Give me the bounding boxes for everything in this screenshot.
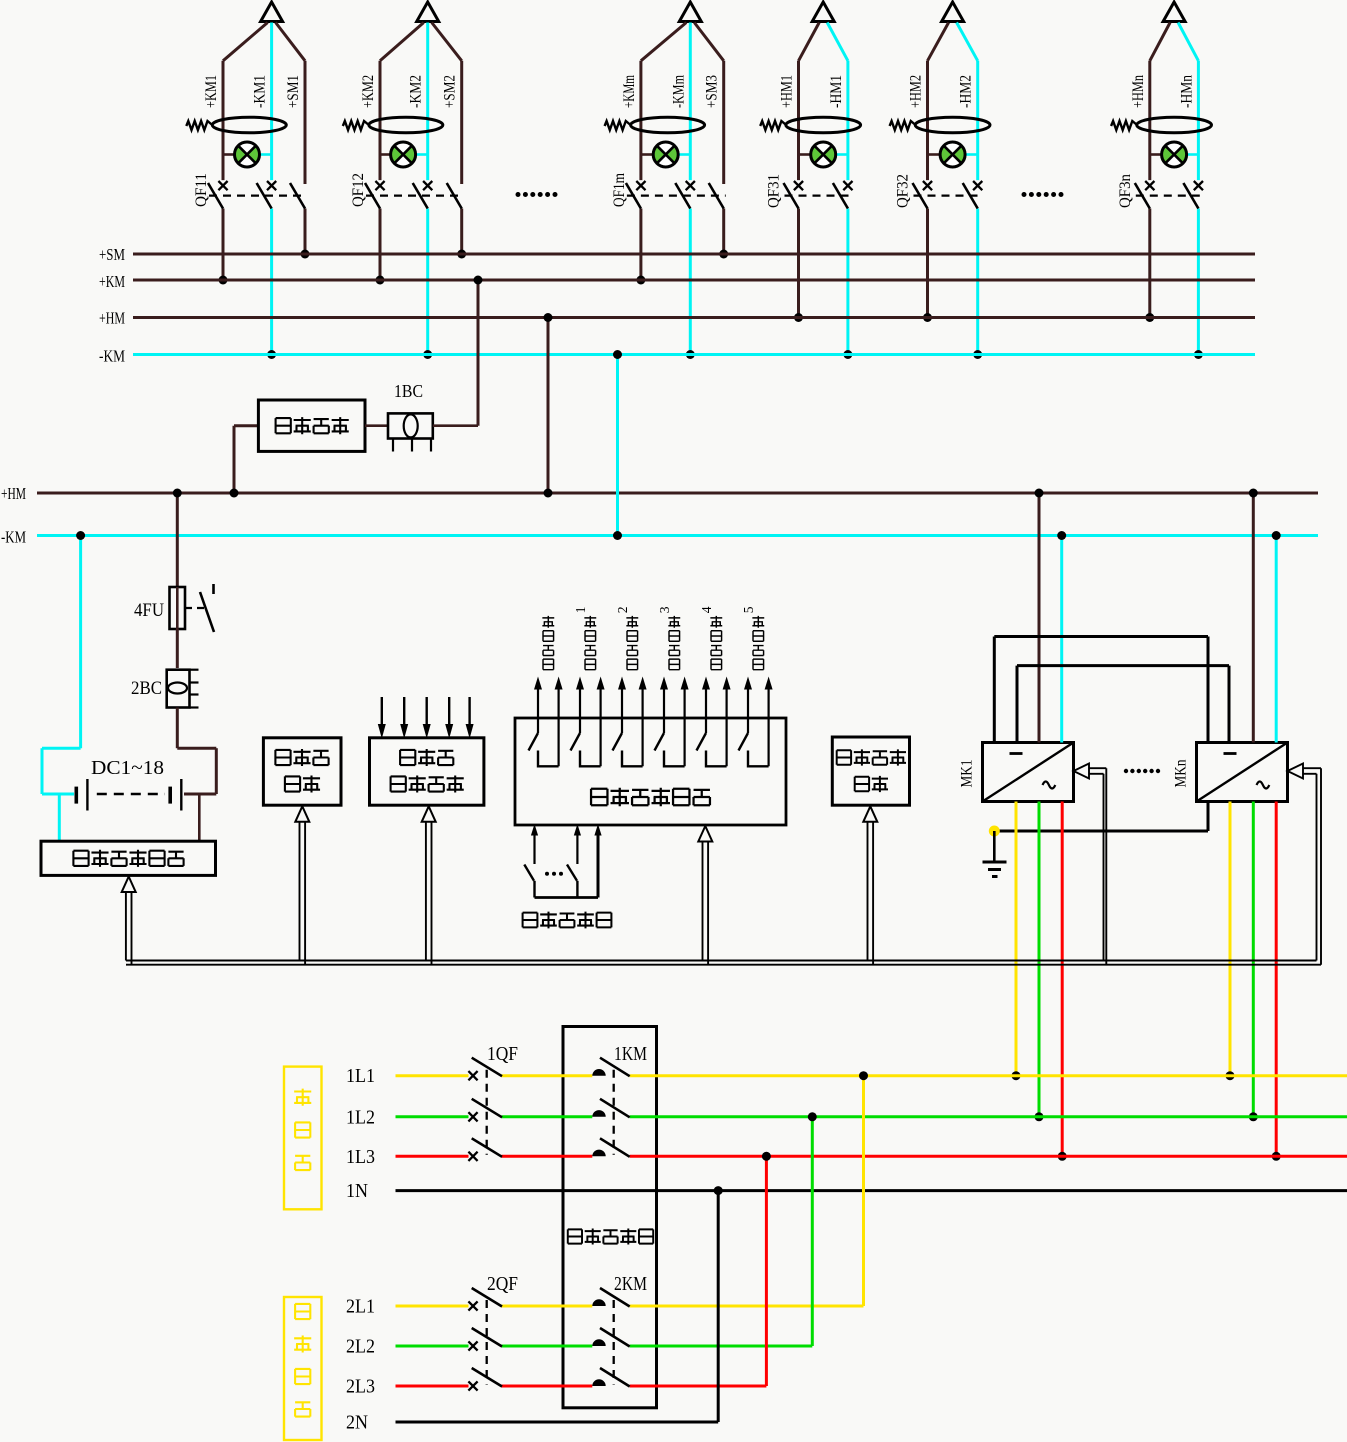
svg-text:1KM: 1KM: [614, 1043, 647, 1065]
svg-text:-KMm: -KMm: [670, 75, 687, 108]
line 2L1: [346, 1296, 864, 1318]
ellipsis dots between QF32 and QF3n: [1022, 192, 1064, 197]
ellipsis dots between MK1 and MKn: [1124, 769, 1160, 773]
wire +line left +KMm: [641, 23, 686, 281]
label switch input: [523, 912, 612, 929]
comm bus horizontal: [126, 961, 1321, 965]
contactor 1KM: [592, 1043, 647, 1157]
label 故障输出3: [657, 606, 680, 669]
wire MK1 phase C: [1058, 802, 1067, 1161]
distribution feeder head triangle QF12: [417, 2, 439, 22]
wire module DC link inner: [1017, 666, 1229, 743]
bus -KM control: [1, 528, 1318, 547]
node -HM2 on -KM bus: [973, 350, 982, 359]
svg-text:2L2: 2L2: [346, 1336, 375, 1358]
node +SM1 on +SM bus: [301, 250, 310, 259]
wire 4FU to 2BC: [176, 629, 179, 668]
svg-text:+KMm: +KMm: [621, 75, 638, 108]
node +SM2 on +SM bus: [457, 250, 466, 259]
wire -line riser -KM2: [426, 23, 429, 355]
comm arrow into battery inspection unit: [122, 877, 136, 965]
node -HMn on -KM bus: [1194, 350, 1203, 359]
distribution feeder head triangle QF31: [812, 2, 834, 22]
node +KM1 on +KM bus: [219, 276, 228, 285]
circuit breaker QF1m: [611, 173, 726, 209]
circuit breaker QF12: [350, 173, 464, 209]
label 故障输出2: [615, 606, 638, 669]
svg-text:+KM2: +KM2: [360, 75, 377, 108]
bus -KM: [99, 347, 1255, 366]
distribution feeder head triangle QF11: [261, 2, 283, 22]
label +SM1: [285, 75, 302, 108]
wire MKn -KM feed: [1272, 531, 1281, 743]
AC DC detection unit box: [370, 738, 484, 805]
battery inspection unit box: [41, 841, 216, 875]
bus +SM: [99, 245, 1255, 264]
svg-text:-HM1: -HM1: [828, 75, 845, 108]
label -KMm: [670, 75, 687, 108]
svg-text:1: 1: [573, 606, 588, 613]
line 1N: [346, 1180, 1347, 1202]
wire battery plus tap to monitor: [198, 794, 201, 841]
main monitor unit box: [263, 738, 341, 805]
svg-text:4FU: 4FU: [134, 600, 164, 621]
distribution feeder head triangle QF32: [942, 2, 964, 22]
wire 4FU riser: [173, 489, 182, 588]
label +KMm: [621, 75, 638, 108]
signal lamp QF12: [380, 142, 428, 167]
label 系统故障: [542, 616, 554, 670]
circuit breaker QF31: [766, 174, 853, 209]
relay output contact 4: [655, 677, 689, 767]
comm arrow into MK1: [1074, 764, 1107, 965]
svg-text:1N: 1N: [346, 1180, 368, 1202]
wire MK1 phase A: [1012, 802, 1021, 1081]
ground symbol: [983, 831, 1007, 877]
svg-text:+HM: +HM: [99, 309, 125, 328]
current transformer ellipse QF1m: [605, 117, 705, 133]
wire MKn phase B: [1249, 802, 1258, 1122]
relay output contact 5: [697, 677, 731, 767]
svg-text:-KM: -KM: [99, 347, 125, 366]
wire MK1 -KM feed: [1057, 531, 1066, 743]
wire module PE loop outer: [994, 637, 1208, 832]
wire +line left +KM1: [223, 23, 268, 281]
wire 2L2 to 1L2: [808, 1112, 817, 1346]
relay output contact 2: [571, 677, 605, 767]
svg-text:4: 4: [699, 606, 714, 613]
svg-text:-KM1: -KM1: [252, 75, 269, 108]
wire MK1 +HM feed: [1035, 489, 1044, 743]
svg-text:2L3: 2L3: [346, 1376, 375, 1398]
ellipsis dots between QF12 and QF1m: [516, 192, 558, 197]
wire +HM left +HMn: [1150, 23, 1170, 318]
label 故障输出1: [573, 606, 596, 669]
svg-text:+HM2: +HM2: [908, 75, 925, 108]
label -KM2: [408, 75, 425, 108]
svg-text:+HMn: +HMn: [1130, 75, 1147, 108]
node -HM1 on -KM bus: [843, 350, 852, 359]
wire +SM right +SM2: [432, 23, 462, 255]
distribution feeder head triangle QF3n: [1163, 2, 1185, 22]
line 2L3: [346, 1376, 766, 1398]
svg-text:1L3: 1L3: [346, 1146, 375, 1168]
node +HM1 on +HM bus: [794, 313, 803, 322]
wire -KM to battery negative: [42, 531, 85, 794]
svg-text:MKn: MKn: [1173, 760, 1190, 788]
wire 2L1 to 1L1: [859, 1071, 868, 1306]
svg-text:+HM: +HM: [1, 484, 26, 503]
breaker 1QF: [468, 1043, 518, 1161]
svg-text:+SM: +SM: [99, 245, 125, 264]
label -HM1: [828, 75, 845, 108]
comm arrow into insulation monitor: [863, 806, 877, 964]
converter 2BC: [131, 670, 199, 708]
node +HM2 on +HM bus: [923, 313, 932, 322]
svg-text:QF12: QF12: [350, 173, 367, 207]
label -KM1: [252, 75, 269, 108]
disconnect switch at 4FU: [185, 584, 214, 632]
wire +HM left +HM2: [928, 23, 949, 318]
wire -HM right -HMn: [1178, 23, 1198, 355]
wire 1BC to riser: [433, 424, 478, 427]
circuit breaker QF11: [193, 173, 307, 209]
label +KM1: [203, 75, 220, 108]
svg-text:5: 5: [741, 606, 756, 613]
wire 2BC to battery positive: [177, 708, 216, 795]
label -HMn: [1178, 75, 1195, 108]
node +KM2 on +KM bus: [376, 276, 385, 285]
line 1L2: [346, 1106, 1347, 1128]
wire battery minus tap to monitor: [58, 794, 61, 841]
node +HMn on +HM bus: [1145, 313, 1154, 322]
svg-text:2BC: 2BC: [131, 678, 162, 699]
current transformer ellipse QF32: [890, 117, 990, 133]
svg-text:-KM: -KM: [1, 528, 26, 547]
svg-text:2QF: 2QF: [487, 1273, 518, 1295]
node +KMm on +KM bus: [636, 276, 645, 285]
svg-text:QF3n: QF3n: [1117, 174, 1134, 208]
comm arrow into MKn: [1288, 764, 1322, 965]
battery DC1~18: [76, 757, 181, 811]
rectifier module MK1: [959, 743, 1074, 802]
svg-text:2N: 2N: [346, 1412, 368, 1434]
svg-text:+SM1: +SM1: [285, 75, 302, 108]
svg-text:3: 3: [657, 606, 672, 613]
breaker 2QF: [468, 1273, 518, 1391]
line 1L3: [346, 1146, 1347, 1168]
label +SM2: [442, 75, 459, 108]
label +KM2: [360, 75, 377, 108]
comm arrow into main monitor unit: [295, 806, 309, 964]
wire 2N to 1N: [714, 1186, 723, 1422]
input arrows into AC DC detection unit: [378, 697, 474, 739]
main source label box: [284, 1067, 322, 1210]
svg-text:DC1~18: DC1~18: [91, 757, 164, 779]
node +SM3 on +SM bus: [719, 250, 728, 259]
label 故障输出5: [741, 606, 764, 669]
svg-text:+SM3: +SM3: [704, 75, 721, 108]
relay output contact 6: [739, 677, 773, 767]
node -KM1 on -KM bus: [267, 350, 276, 359]
distribution feeder head triangle QF1m: [679, 2, 701, 22]
bus +HM control: [1, 484, 1318, 503]
wire +SM right +SM3: [694, 23, 723, 255]
svg-text:MK1: MK1: [959, 760, 976, 788]
input output unit box: [515, 718, 786, 825]
svg-text:-KM2: -KM2: [408, 75, 425, 108]
wire -line riser -KM1: [270, 23, 273, 355]
line 2L2: [346, 1336, 812, 1358]
transformer 1BC: [388, 381, 433, 452]
node -KM2 on -KM bus: [423, 350, 432, 359]
svg-text:2: 2: [615, 606, 630, 613]
svg-text:1QF: 1QF: [487, 1043, 518, 1065]
svg-text:1BC: 1BC: [394, 381, 423, 401]
wire regulator to 1BC: [365, 424, 388, 427]
svg-text:2L1: 2L1: [346, 1296, 375, 1318]
label +HMn: [1130, 75, 1147, 108]
current transformer ellipse QF31: [760, 117, 860, 133]
svg-text:+KM1: +KM1: [203, 75, 220, 108]
svg-text:QF32: QF32: [895, 174, 912, 208]
label +HM1: [779, 75, 796, 108]
relay output contact 1: [529, 677, 563, 767]
current transformer ellipse QF11: [186, 117, 286, 133]
wire +HM left +HM1: [799, 23, 820, 318]
wire MKn phase A: [1226, 802, 1235, 1081]
label 故障输出4: [699, 606, 722, 669]
comm arrow into AC DC detection unit: [422, 806, 436, 964]
signal lamp QF3n: [1150, 142, 1199, 167]
comm arrow into input output unit: [698, 826, 712, 965]
wire riser +HM to control bus: [544, 313, 553, 498]
svg-text:+HM1: +HM1: [779, 75, 796, 108]
svg-text:+SM2: +SM2: [442, 75, 459, 108]
node PE yellow: [989, 826, 1000, 837]
current transformer ellipse QF12: [343, 117, 443, 133]
svg-text:-HMn: -HMn: [1178, 75, 1195, 108]
svg-text:1L1: 1L1: [346, 1065, 375, 1087]
circuit breaker QF32: [895, 174, 983, 209]
wire MK1 phase B: [1035, 802, 1044, 1122]
label -HM2: [958, 75, 975, 108]
wire MKn +HM feed: [1249, 489, 1258, 743]
svg-text:2KM: 2KM: [614, 1273, 647, 1295]
contactor 2KM: [592, 1273, 647, 1387]
wire +line left +KM2: [380, 23, 424, 281]
wire MKn phase C: [1272, 802, 1281, 1161]
signal lamp QF11: [223, 142, 272, 167]
insulation monitor box: [832, 737, 909, 805]
relay output contact 3: [613, 677, 647, 767]
wire 1BC riser to +KM bus: [474, 276, 483, 426]
fuse 4FU: [134, 587, 185, 629]
wire +SM right +SM1: [276, 23, 305, 255]
node -KMm on -KM bus: [686, 350, 695, 359]
switch quantity input contacts: [524, 824, 601, 898]
svg-text:QF1m: QF1m: [611, 173, 628, 207]
voltage regulator box (auto regulate): [258, 400, 365, 451]
wire -HM right -HM1: [827, 23, 848, 355]
label +HM2: [908, 75, 925, 108]
label +SM3: [704, 75, 721, 108]
bus +HM: [99, 309, 1255, 328]
backup source label box: [284, 1297, 322, 1440]
wire regulator to +HM bus: [230, 426, 259, 498]
dual power transfer box: [563, 1027, 657, 1408]
svg-text:1L2: 1L2: [346, 1106, 375, 1128]
signal lamp QF31: [799, 142, 848, 167]
circuit breaker QF3n: [1117, 174, 1203, 209]
signal lamp QF32: [928, 142, 978, 167]
svg-text:QF31: QF31: [766, 174, 783, 208]
signal lamp QF1m: [641, 142, 690, 167]
current transformer ellipse QF3n: [1111, 117, 1211, 133]
bus +KM: [99, 272, 1255, 291]
wire -HM right -HM2: [957, 23, 978, 355]
line 1L1: [346, 1065, 1347, 1087]
line 2N: [346, 1412, 718, 1434]
svg-text:-HM2: -HM2: [958, 75, 975, 108]
wire 2L3 to 1L3: [762, 1152, 771, 1386]
rectifier module MKn: [1173, 743, 1288, 802]
svg-text:+KM: +KM: [99, 272, 125, 291]
wire riser -KM to control bus: [613, 350, 622, 540]
wire -line riser -KMm: [689, 23, 692, 355]
svg-text:QF11: QF11: [193, 173, 210, 207]
